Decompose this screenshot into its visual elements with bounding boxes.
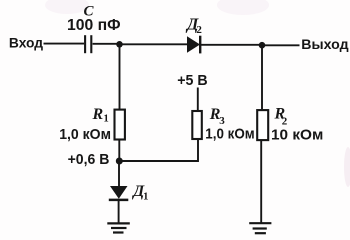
ground under R2 [249,223,271,233]
node B junction [259,42,266,49]
wire input to capacitor [44,43,85,45]
wire R3 top to +5 В [197,88,199,111]
label R3 [209,106,226,127]
svg-text:1: 1 [104,114,109,125]
svg-text:100 пФ: 100 пФ [67,17,121,34]
svg-text:Выход: Выход [301,36,348,52]
node C junction [116,158,123,165]
wire R1 to node C [118,141,120,162]
svg-text:1,0 кОм: 1,0 кОм [205,125,254,142]
wire capacitor to node A [93,43,120,45]
svg-text:10 кОм: 10 кОм [271,126,323,143]
svg-text:2: 2 [196,24,202,36]
wire R2 to ground [260,141,262,223]
ground under Д1 [107,223,130,232]
label R1 [92,106,109,125]
svg-text:R: R [92,106,104,123]
wire node B to output [262,44,300,46]
node A junction [116,41,123,48]
wire Д1 to ground [118,200,120,223]
label R2 [274,106,288,128]
resistor R3 [192,111,202,139]
resistor R2 [257,110,268,140]
diode label Д2 [185,15,202,37]
svg-text:1: 1 [143,192,148,203]
wire node B down to R2 [261,45,263,109]
resistor R1 [115,110,125,140]
diode Д2 [187,36,200,54]
capacitor C plates [85,35,91,53]
wire node C down to Д1 [118,161,120,187]
svg-text:+0,6 В: +0,6 В [68,151,110,168]
wire diode Д2 to node B [201,44,262,46]
svg-text:1,0 кОм: 1,0 кОм [59,126,111,143]
diode Д1 [109,186,129,200]
wire node A to diode Д2 [120,43,189,45]
svg-text:Вход: Вход [9,35,43,51]
wire node A down to R1 [119,44,121,109]
wire node C to R3 bottom [119,140,198,161]
svg-text:+5 В: +5 В [177,73,207,89]
diode label Д1 [131,183,148,203]
